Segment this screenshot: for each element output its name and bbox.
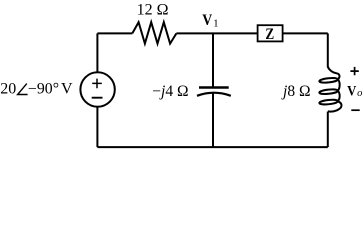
svg-text:j8 Ω: j8 Ω: [281, 83, 310, 100]
svg-text:V: V: [347, 83, 356, 99]
svg-text:−90°: −90°: [28, 81, 59, 98]
svg-text:V: V: [202, 12, 212, 29]
svg-text:Z: Z: [265, 26, 274, 43]
svg-text:1: 1: [213, 18, 219, 30]
svg-text:20: 20: [0, 81, 16, 98]
svg-text:12 Ω: 12 Ω: [137, 1, 169, 18]
svg-text:−j4 Ω: −j4 Ω: [152, 83, 188, 100]
svg-text:V: V: [61, 81, 73, 98]
svg-text:o: o: [357, 88, 362, 99]
